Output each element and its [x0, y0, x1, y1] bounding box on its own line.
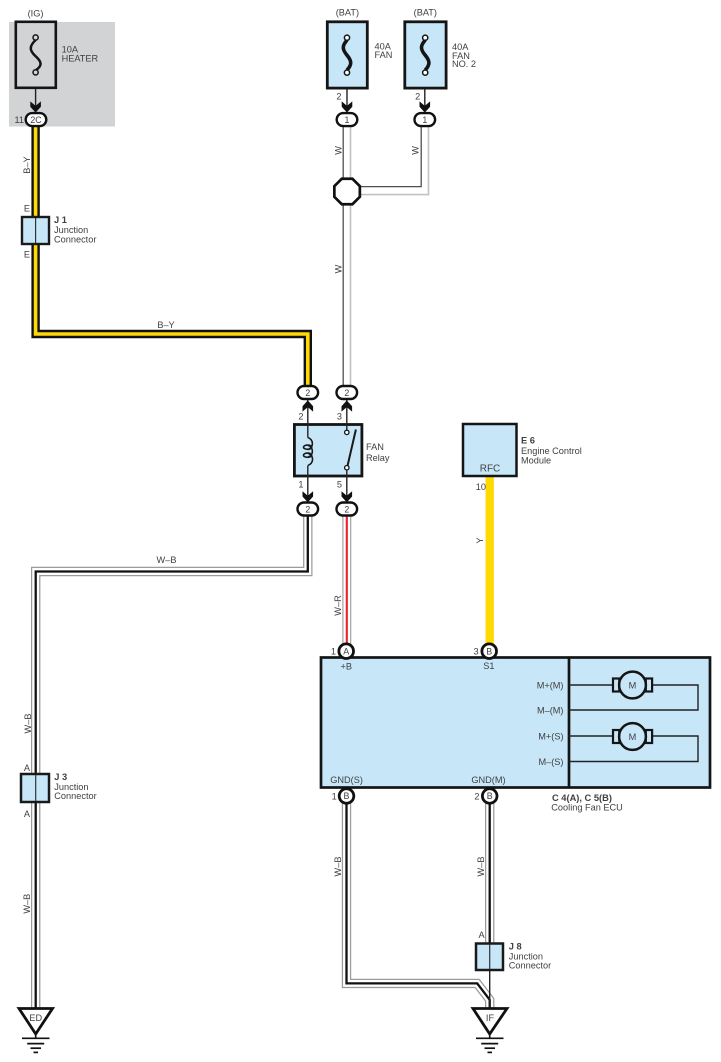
- svg-text:B: B: [487, 791, 493, 801]
- svg-text:J 3: J 3: [54, 772, 67, 782]
- svg-text:B: B: [486, 647, 492, 657]
- svg-text:W–R: W–R: [333, 595, 343, 616]
- svg-text:IF: IF: [486, 1013, 495, 1023]
- svg-text:Cooling Fan ECU: Cooling Fan ECU: [551, 802, 623, 812]
- svg-text:W: W: [334, 146, 344, 155]
- svg-text:GND(S): GND(S): [330, 775, 363, 785]
- svg-text:2: 2: [415, 91, 420, 101]
- svg-text:1: 1: [331, 647, 336, 657]
- svg-text:M+(S): M+(S): [538, 731, 563, 741]
- svg-text:J 1: J 1: [54, 215, 67, 225]
- svg-text:E 6: E 6: [521, 436, 535, 446]
- svg-text:B: B: [344, 791, 350, 801]
- svg-text:W–B: W–B: [22, 894, 32, 914]
- svg-text:Relay: Relay: [366, 453, 390, 463]
- svg-text:M–(S): M–(S): [538, 757, 563, 767]
- svg-text:E: E: [24, 204, 30, 214]
- svg-text:GND(M): GND(M): [471, 775, 505, 785]
- svg-text:5: 5: [337, 480, 342, 490]
- svg-text:(IG): (IG): [28, 8, 44, 18]
- svg-text:FAN: FAN: [366, 442, 384, 452]
- svg-text:W–B: W–B: [23, 714, 33, 734]
- svg-text:HEATER: HEATER: [62, 54, 99, 64]
- svg-text:2: 2: [298, 412, 303, 422]
- svg-text:NO. 2: NO. 2: [452, 59, 476, 69]
- svg-text:A: A: [24, 763, 31, 773]
- svg-text:1: 1: [422, 115, 427, 125]
- svg-text:(BAT): (BAT): [414, 8, 437, 18]
- svg-text:E: E: [24, 250, 30, 260]
- svg-text:2: 2: [344, 504, 349, 514]
- svg-text:3: 3: [473, 647, 478, 657]
- svg-text:J 8: J 8: [509, 942, 522, 952]
- svg-text:W–B: W–B: [476, 857, 486, 877]
- svg-text:Connector: Connector: [54, 235, 96, 245]
- svg-text:RFC: RFC: [480, 463, 501, 474]
- svg-text:3: 3: [337, 412, 342, 422]
- svg-text:1: 1: [298, 480, 303, 490]
- svg-text:2: 2: [305, 388, 310, 398]
- svg-text:(BAT): (BAT): [336, 8, 359, 18]
- svg-text:Connector: Connector: [54, 791, 96, 801]
- svg-text:+B: +B: [341, 662, 353, 672]
- svg-text:A: A: [478, 930, 485, 940]
- svg-text:A: A: [24, 809, 31, 819]
- svg-text:Module: Module: [521, 456, 551, 466]
- svg-text:2: 2: [336, 91, 341, 101]
- svg-text:B–Y: B–Y: [22, 156, 32, 173]
- svg-text:2: 2: [344, 388, 349, 398]
- svg-text:Y: Y: [475, 537, 485, 543]
- svg-text:M–(M): M–(M): [537, 705, 564, 715]
- svg-text:S1: S1: [483, 661, 494, 671]
- svg-text:M: M: [629, 732, 637, 742]
- svg-text:2C: 2C: [30, 115, 42, 125]
- svg-text:A: A: [343, 647, 349, 657]
- svg-text:FAN: FAN: [375, 50, 393, 60]
- svg-text:Junction: Junction: [54, 225, 88, 235]
- svg-text:11: 11: [14, 115, 24, 125]
- svg-text:10: 10: [476, 482, 486, 492]
- svg-text:Engine Control: Engine Control: [521, 446, 582, 456]
- svg-text:W–B: W–B: [333, 857, 343, 877]
- svg-text:W: W: [410, 146, 420, 155]
- svg-text:M+(M): M+(M): [537, 680, 564, 690]
- svg-text:2: 2: [305, 504, 310, 514]
- svg-text:B–Y: B–Y: [157, 320, 174, 330]
- svg-text:1: 1: [332, 792, 337, 802]
- svg-text:C 4(A), C 5(B): C 4(A), C 5(B): [552, 793, 612, 803]
- svg-text:Connector: Connector: [509, 961, 551, 971]
- svg-text:W: W: [334, 264, 344, 273]
- svg-text:M: M: [629, 680, 637, 690]
- svg-text:W–B: W–B: [157, 555, 177, 565]
- svg-text:ED: ED: [29, 1013, 42, 1023]
- svg-text:2: 2: [474, 792, 479, 802]
- svg-text:1: 1: [345, 115, 350, 125]
